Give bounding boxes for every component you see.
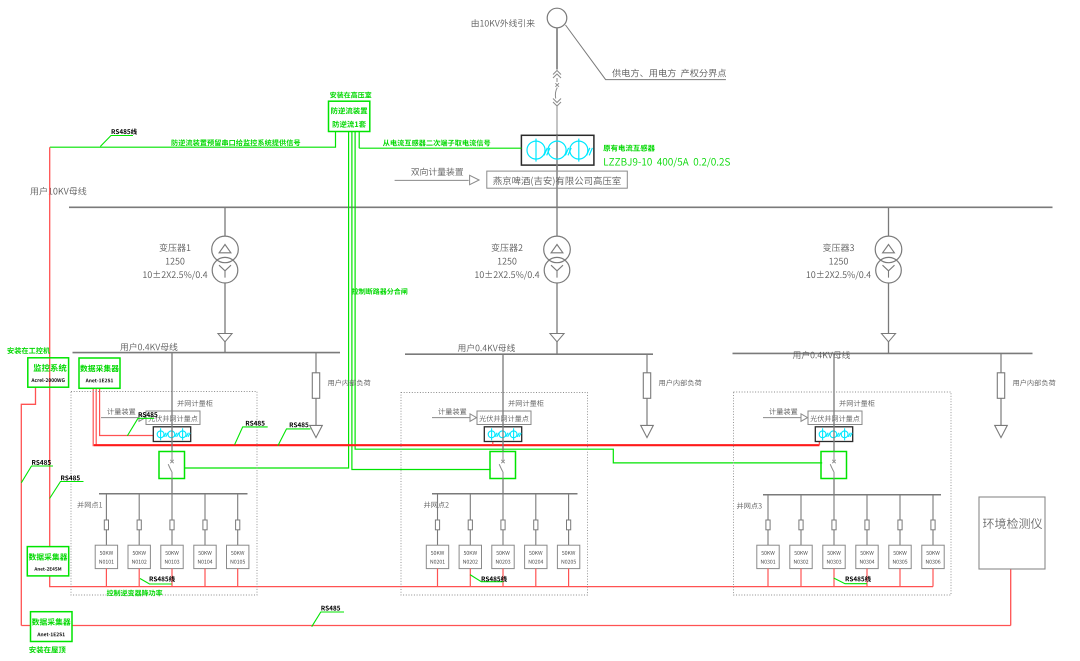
label RS485 cable 3 [834, 576, 871, 584]
label transformer T1 [143, 243, 207, 279]
cabinet grid-connection metering cabinet 1 [71, 392, 257, 596]
wire main feeder section 1 [171, 353, 173, 452]
wire red RS485 drop N0202 [469, 569, 471, 587]
label take current signal from CT terminals [383, 139, 490, 146]
load branch user internal load 1 [310, 353, 323, 438]
label RS485 left b [50, 475, 84, 498]
transformer T2 [544, 207, 571, 354]
wire green control line to breaker QF3 [355, 132, 822, 463]
inverter branch N0202 [459, 494, 481, 569]
inverter branch N0306 [922, 495, 944, 569]
node incoming 10kV supply circle [547, 8, 567, 28]
wire red monitor to bottom bus [21, 387, 35, 625]
wire paralleling point bus 3 [763, 494, 941, 496]
wire red riser to environment detector [1010, 569, 1012, 626]
inverter branch N0302 [790, 495, 812, 569]
label existing CT [603, 144, 655, 151]
wire red riser to CT3 [818, 441, 820, 445]
box PV grid-connection metering point 1 [146, 411, 200, 425]
label CT type LZZBJ9-10 [604, 158, 730, 168]
label transformer T3 [807, 243, 871, 279]
label RS485 bottom [312, 606, 344, 627]
wire metering leader line [395, 179, 469, 181]
wire main feeder section 3 [833, 353, 835, 451]
inverter branch N0103 [161, 494, 183, 569]
wire feeder from supply circle [556, 28, 558, 70]
label metering device 2 [438, 408, 466, 415]
current transformer box CT1 [153, 427, 190, 442]
label breaker open/close control [352, 288, 407, 295]
box data collector DC3 Anet-1E2S1 [31, 612, 73, 642]
wire red RS485 drop N0201 [437, 569, 439, 587]
box data collector DC2 [27, 547, 68, 576]
inverter branch N0203 [492, 494, 514, 569]
label user internal load 1 [328, 379, 371, 386]
wire feeder to paralleling bus 2 [502, 479, 504, 494]
wire user 10kV busbar [69, 206, 1053, 208]
label cabinet title 2 [508, 400, 543, 407]
wire green control line to breaker QF1 [184, 132, 348, 469]
label RS485 cable 2 [470, 575, 507, 582]
label user internal load 2 [659, 379, 702, 386]
cabinet grid-connection metering cabinet 3 [734, 392, 952, 595]
wire feeder through CT box [556, 135, 558, 170]
label user 10kV busbar [30, 187, 86, 195]
label metering device 3 [769, 408, 797, 415]
label 0.4kV busbar 1 [120, 343, 177, 351]
inverter branch N0303 [823, 495, 845, 569]
wire red RS485 drop N0205 [568, 569, 570, 587]
box PV grid-connection metering point 2 [477, 411, 531, 425]
wire red RS485 drop N0301 [767, 569, 769, 587]
wire green RS485 to monitor system [50, 132, 336, 148]
current transformer box CT0 (existing CTs) [521, 135, 594, 165]
label RS485 left a [21, 460, 53, 483]
arrow metering leader 1 [139, 414, 146, 422]
wire red stub to CT2 [492, 441, 494, 445]
transformer T1 [212, 207, 239, 352]
label installed on industrial PC [7, 347, 50, 354]
label anti-backflow serial port signal [172, 139, 301, 146]
wire feeder to paralleling bus 1 [171, 479, 173, 494]
arrow metering leader 2 [470, 414, 477, 422]
wire red RS485 drop N0103 [171, 569, 173, 587]
wire red RS485 drop N0303 [833, 569, 835, 587]
label control inverter power reduction [107, 590, 163, 597]
inverter branch N0204 [525, 494, 547, 569]
wire red RS485 drop N0101 [105, 569, 107, 587]
label 0.4kV busbar 3 [793, 351, 850, 359]
inverter branch N0301 [757, 495, 779, 569]
wire green CT signal to anti-backflow device [359, 147, 521, 149]
inverter branch N0201 [426, 494, 448, 569]
wire red collector1 drop b [95, 388, 97, 445]
disconnect switch QS (drawout breaker, open) [553, 71, 561, 136]
wire red bottom RS485 bus [21, 625, 1010, 627]
box data collector DC1 Anet-1E2S1 [79, 358, 120, 388]
load branch user internal load 3 [995, 353, 1008, 437]
wire green right leg to CT0 [358, 132, 360, 149]
wire red RS485 drop N0104 [204, 569, 206, 587]
label cabinet title 1 [177, 400, 212, 407]
wire property-boundary leader [566, 25, 726, 80]
inverter branch N0305 [889, 495, 911, 569]
wire red RS485 drop N0203 [502, 569, 504, 587]
label cabinet title 3 [839, 400, 874, 407]
wire red RS485 from monitor system (long vertical) [49, 147, 51, 586]
wire green control line to breaker QF2 [352, 132, 491, 470]
inverter branch N0102 [128, 494, 150, 569]
box monitoring system Acrel-2000 [28, 358, 69, 387]
label metering device 1 [107, 408, 135, 415]
label paralleling point 2 [424, 501, 449, 508]
current transformer box CT2 [484, 427, 521, 442]
load branch user internal load 2 [641, 354, 654, 437]
inverter branch N0101 [95, 494, 117, 569]
box anti-backflow device [329, 101, 370, 131]
inverter branch N0304 [856, 495, 878, 569]
inverter branch N0104 [194, 494, 216, 569]
wire red RS485 drop N0102 [138, 569, 140, 587]
wire user 0.4kV busbar section 2 [405, 353, 653, 355]
arrow metering leader [470, 175, 480, 185]
wire red RS485 drop N0306 [932, 569, 934, 587]
wire red RS485 drop N0302 [800, 569, 802, 587]
label RS485 mid a [235, 421, 268, 445]
wire metering leader 2 [432, 417, 472, 419]
wire paralleling point bus 1 [99, 493, 248, 495]
wire paralleling point bus 2 [432, 493, 578, 495]
label paralleling point 1 [77, 501, 102, 508]
inverter branch N0205 [557, 494, 579, 569]
box HV room of Yanjing Beer (Ji an) Co. [487, 171, 628, 188]
wire red RS485 drop N0105 [237, 569, 239, 587]
label RS485 cable 1 [140, 576, 175, 584]
label RS485 top-left [100, 129, 137, 147]
wire feeder to HV room box [556, 165, 558, 207]
label RS485 mid b [278, 422, 311, 445]
wire red main metering bus [94, 444, 820, 446]
wire red collector1 drop a [92, 388, 94, 447]
box PV grid-connection metering point 3 [808, 411, 862, 425]
label 0.4kV busbar 2 [458, 344, 515, 352]
wire user 0.4kV busbar section 1 [73, 352, 341, 354]
label RS485 cab1 ct [127, 412, 157, 436]
current transformer box CT3 [815, 427, 852, 442]
label installed in HV room [330, 92, 371, 99]
label transformer T2 [475, 243, 539, 279]
breaker QF1 (green box) [159, 452, 185, 479]
label installed on roof [29, 646, 65, 653]
wire feeder to paralleling bus 3 [833, 479, 835, 495]
arrow metering leader 3 [801, 414, 808, 422]
transformer T3 [875, 207, 902, 353]
wire red RS485 drop N0305 [899, 569, 901, 587]
wire red inverter RS485 bus [49, 586, 933, 588]
breaker QF2 (green box) [490, 452, 516, 479]
wire red collector1 drop c to CT1 [100, 388, 154, 436]
inverter branch N0105 [227, 494, 249, 569]
CT0 cyan winding symbols [527, 139, 592, 162]
label property demarcation point [612, 69, 726, 78]
wire red RS485 drop N0304 [866, 569, 868, 587]
wire metering leader 1 [101, 417, 141, 419]
wire red RS485 drop N0204 [535, 569, 537, 587]
cabinet grid-connection metering cabinet 2 [401, 393, 588, 596]
label incoming line [472, 19, 535, 27]
label paralleling point 3 [737, 502, 762, 509]
breaker QF3 (green box) [821, 452, 847, 479]
box environment detector [979, 497, 1045, 569]
label user internal load 3 [1013, 379, 1056, 386]
label bidirectional metering device [411, 168, 463, 176]
wire main feeder section 2 [502, 354, 504, 451]
wire user 0.4kV busbar section 3 [733, 352, 1033, 354]
wire metering leader 3 [763, 417, 803, 419]
